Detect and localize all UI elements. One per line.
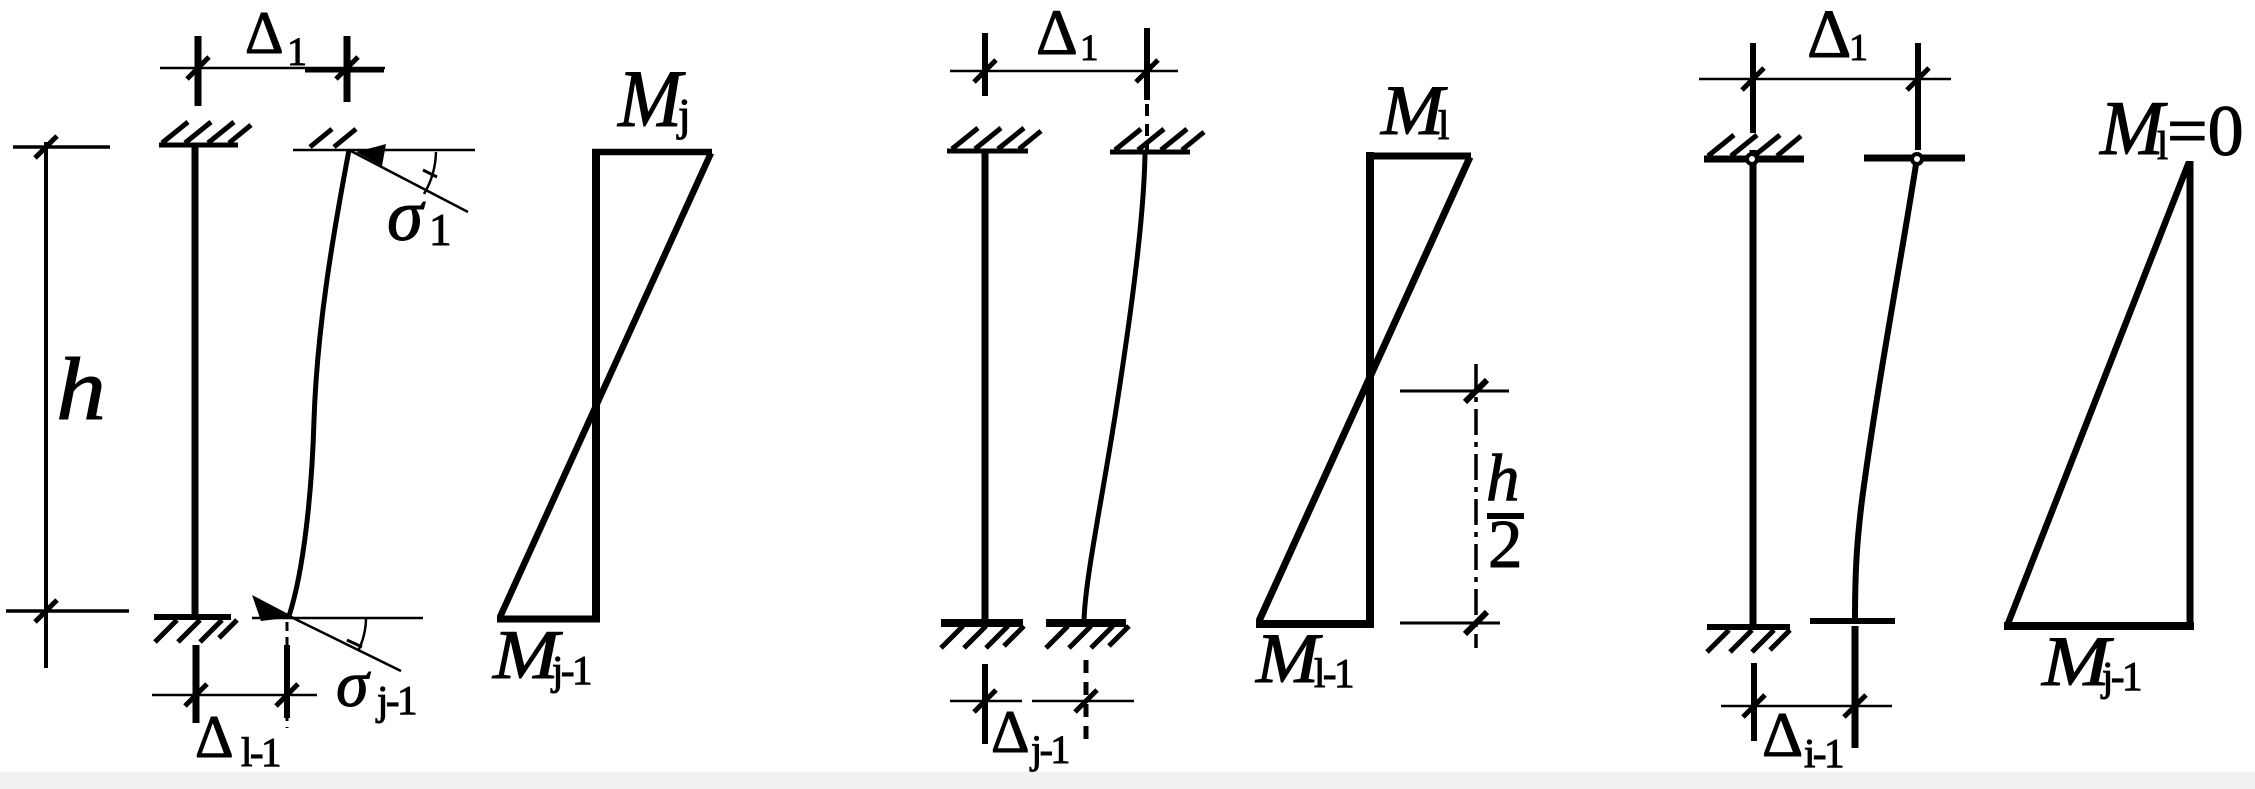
svg-text:h: h bbox=[56, 341, 106, 439]
svg-text:h: h bbox=[1486, 441, 1520, 515]
svg-text:Δ: Δ bbox=[1036, 0, 1078, 69]
svg-text:l-1: l-1 bbox=[241, 729, 280, 775]
svg-text:2: 2 bbox=[1488, 506, 1523, 582]
svg-text:Δ: Δ bbox=[245, 0, 284, 66]
svg-text:1: 1 bbox=[287, 29, 307, 74]
svg-text:Δ: Δ bbox=[991, 699, 1030, 765]
svg-text:σ: σ bbox=[387, 175, 426, 256]
svg-text:M: M bbox=[1255, 620, 1323, 698]
svg-text:j-1: j-1 bbox=[550, 647, 591, 693]
svg-text:1: 1 bbox=[1849, 27, 1868, 69]
svg-text:j-1: j-1 bbox=[2100, 653, 2141, 699]
svg-text:Δ: Δ bbox=[1762, 699, 1803, 770]
svg-text:Δ: Δ bbox=[1807, 0, 1851, 72]
svg-text:=0: =0 bbox=[2167, 91, 2244, 171]
svg-text:j-1: j-1 bbox=[375, 677, 416, 723]
svg-text:j-1: j-1 bbox=[1029, 727, 1068, 772]
svg-text:Δ: Δ bbox=[195, 704, 234, 770]
svg-text:l: l bbox=[1438, 102, 1449, 148]
svg-text:j: j bbox=[676, 89, 691, 140]
svg-text:1: 1 bbox=[429, 205, 452, 255]
svg-text:M: M bbox=[617, 53, 686, 144]
svg-text:σ: σ bbox=[336, 648, 371, 721]
svg-text:l-1: l-1 bbox=[1314, 650, 1353, 696]
svg-text:i-1: i-1 bbox=[1804, 730, 1843, 776]
svg-text:1: 1 bbox=[1080, 28, 1099, 69]
